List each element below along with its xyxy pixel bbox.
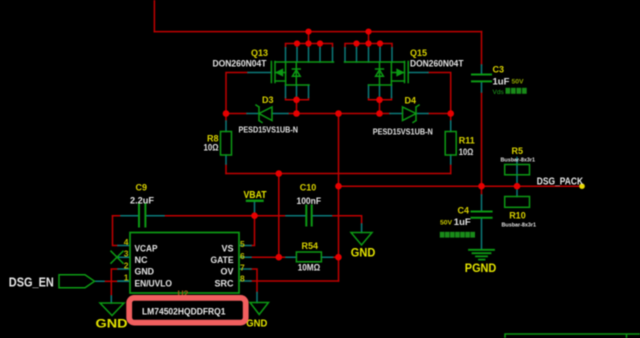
no-connect X on pin 3 bbox=[111, 251, 123, 263]
wire Q15 gate bbox=[428, 73, 451, 114]
net label PGND bbox=[465, 263, 497, 275]
svg-text:Q15: Q15 bbox=[410, 48, 427, 58]
svg-text:R11: R11 bbox=[459, 136, 475, 146]
node DSG_PACK endpoint bbox=[579, 183, 585, 189]
transistor Q15 bbox=[345, 62, 409, 86]
diode D3 bbox=[256, 105, 272, 123]
wire R8 stubs bbox=[225, 114, 227, 174]
label C10 value bbox=[297, 196, 322, 207]
label C3 voltage bbox=[512, 79, 525, 86]
label R54 value bbox=[298, 263, 321, 273]
capacitor C3 bbox=[472, 75, 491, 82]
IC pin number 8 bbox=[240, 274, 245, 284]
net label GND left bbox=[96, 319, 128, 331]
IC U2 body bbox=[130, 233, 239, 294]
svg-text:8: 8 bbox=[240, 274, 245, 284]
label R10 designator bbox=[509, 211, 526, 221]
svg-text:Busbar-8x3r1: Busbar-8x3r1 bbox=[502, 223, 537, 229]
label R5 designator bbox=[512, 146, 524, 156]
node Q13 gate / R8 / D3 bbox=[223, 110, 230, 117]
wire VBAT rail bbox=[113, 216, 362, 224]
net label GND mid bbox=[351, 248, 376, 260]
label C9 value bbox=[130, 196, 154, 207]
net label VBAT bbox=[244, 190, 267, 201]
pin right GND stub bbox=[256, 293, 258, 303]
pin R11 pins bbox=[450, 121, 452, 164]
label D3 designator bbox=[262, 95, 274, 105]
wire Q13 drain drop bbox=[308, 32, 310, 44]
label C9 designator bbox=[136, 183, 148, 193]
label D3 value bbox=[239, 126, 299, 135]
pin C10 pins bbox=[286, 215, 332, 217]
label C4 designator bbox=[458, 206, 470, 216]
highlight box around part number bbox=[129, 298, 246, 323]
pin C4 pins bbox=[481, 195, 483, 249]
wire gate feed vertical bbox=[278, 174, 280, 258]
pin Q13 drain pins bbox=[286, 48, 333, 62]
pin Q13 gate pin bbox=[248, 72, 271, 74]
svg-text:VCAP: VCAP bbox=[135, 243, 158, 253]
svg-text:R10: R10 bbox=[509, 211, 526, 221]
resistor R8 bbox=[221, 132, 232, 156]
svg-text:7: 7 bbox=[240, 263, 245, 273]
svg-text:C9: C9 bbox=[136, 183, 148, 193]
wire Q15 source jumper bbox=[369, 98, 392, 114]
node Q15 gate / R11 / D4 bbox=[447, 110, 454, 117]
svg-text:100nF: 100nF bbox=[297, 196, 322, 207]
wire IC GND branch bbox=[111, 269, 118, 296]
wire Q15 drain drop bbox=[368, 32, 370, 44]
svg-text:10MΩ: 10MΩ bbox=[298, 263, 321, 273]
label R8 designator bbox=[207, 134, 219, 144]
svg-text:3: 3 bbox=[124, 249, 129, 259]
label C3 value bbox=[493, 77, 510, 88]
svg-text:PESD15VS1UB-N: PESD15VS1UB-N bbox=[239, 126, 299, 135]
IC pin name GND bbox=[135, 267, 155, 277]
node source rail Q15 tap bbox=[376, 110, 383, 117]
pin VBAT stub bbox=[254, 203, 256, 213]
wire top vertical feed bbox=[153, 0, 155, 32]
label Q13 designator bbox=[251, 48, 268, 58]
label LM74502HQDDFRQ1 bbox=[142, 307, 226, 317]
svg-text:Busbar-8x3r1: Busbar-8x3r1 bbox=[501, 158, 536, 164]
svg-text:50V: 50V bbox=[512, 79, 525, 86]
partial component box bottom right bbox=[505, 334, 640, 338]
pin Q15 gate pin bbox=[408, 72, 428, 74]
wire VBAT to VS pin bbox=[251, 212, 255, 246]
svg-text:PGND: PGND bbox=[465, 263, 497, 275]
svg-text:GND: GND bbox=[351, 248, 376, 260]
node VBAT / VS bbox=[251, 212, 258, 219]
wire Q13 gate bbox=[226, 73, 248, 114]
capacitor C10 bbox=[306, 206, 311, 226]
svg-text:D4: D4 bbox=[405, 96, 417, 106]
resistor R5 bbox=[505, 165, 530, 175]
svg-text:1uF: 1uF bbox=[493, 77, 510, 88]
net label DSG_EN bbox=[9, 276, 54, 290]
node DSG line C4 tap bbox=[478, 183, 485, 190]
pin IC left pins bbox=[118, 246, 130, 282]
label R11 designator bbox=[459, 136, 475, 146]
wire Q13 drain jumper bbox=[286, 44, 333, 48]
label D4 designator bbox=[405, 96, 417, 106]
wire Q13 source jumper bbox=[286, 98, 309, 114]
label R8 value bbox=[204, 143, 219, 153]
label C10 designator bbox=[300, 183, 317, 193]
IC pin name SRC bbox=[215, 279, 234, 289]
node gate rail to GATE pin bbox=[276, 170, 283, 177]
pin C9 pins bbox=[121, 215, 164, 217]
label Q13 value bbox=[213, 59, 268, 69]
svg-text:NC: NC bbox=[135, 255, 148, 265]
node source rail D3 side bbox=[293, 110, 300, 117]
power VBAT bar bbox=[247, 200, 263, 202]
pin Q15 drain pins bbox=[345, 48, 392, 62]
IC pin name VS bbox=[221, 243, 233, 253]
svg-text:5: 5 bbox=[240, 239, 245, 249]
IC pin number 6 bbox=[240, 251, 245, 261]
svg-text:50V: 50V bbox=[440, 220, 453, 227]
wire C9 to VCAP bbox=[113, 216, 119, 246]
junction Q15 drain bus bbox=[353, 40, 383, 46]
node DSG line R5/R10 tap bbox=[514, 183, 521, 190]
pin mid GND stub bbox=[361, 224, 363, 233]
IC pin name NC bbox=[135, 255, 148, 265]
IC pin number 5 bbox=[240, 239, 245, 249]
wire DSG_EN segment bbox=[104, 280, 118, 282]
label C3 designator bbox=[493, 65, 505, 75]
pin D4 pins bbox=[390, 113, 428, 115]
junction Q13 source bus bbox=[293, 97, 300, 104]
svg-text:DON260N04T: DON260N04T bbox=[213, 59, 268, 69]
wire DSG_PACK line bbox=[339, 185, 583, 187]
ground left GND bbox=[100, 303, 124, 316]
label C4 voltage bbox=[440, 220, 453, 227]
resistor R11 bbox=[445, 132, 456, 156]
transistor Q13 bbox=[271, 62, 333, 86]
IC pin number 3 bbox=[124, 249, 129, 259]
pin R5 pins bbox=[516, 158, 518, 187]
label R54 designator bbox=[302, 241, 319, 251]
ground right GND bbox=[250, 303, 269, 315]
svg-text:R5: R5 bbox=[512, 146, 524, 156]
IC pin name GATE bbox=[211, 255, 234, 265]
capacitor C4 bbox=[472, 212, 492, 218]
svg-text:10Ω: 10Ω bbox=[204, 143, 219, 153]
pin Q15 source pins bbox=[369, 85, 392, 98]
label D4 value bbox=[373, 128, 433, 137]
wire top horizontal rail bbox=[154, 31, 481, 33]
node DSG line source tap bbox=[335, 183, 342, 190]
svg-text:LM74502HQDDFRQ1: LM74502HQDDFRQ1 bbox=[142, 307, 226, 317]
svg-text:OV: OV bbox=[220, 267, 233, 277]
junction top rail Q13 tap bbox=[305, 29, 311, 35]
pin R10 pin bbox=[516, 186, 518, 196]
wire R11 stubs bbox=[450, 114, 452, 174]
svg-text:GATE: GATE bbox=[211, 255, 234, 265]
port DSG_EN bbox=[59, 275, 95, 288]
resistor R54 bbox=[296, 252, 321, 262]
svg-text:C10: C10 bbox=[300, 183, 317, 193]
wire Q15 drain jumper bbox=[345, 44, 392, 48]
wire GATE pin row bbox=[251, 256, 338, 258]
net label GND right bbox=[246, 318, 267, 330]
capacitor C9 bbox=[139, 204, 145, 227]
pin Q13 source pins bbox=[286, 85, 309, 98]
ground PGND earth bbox=[469, 250, 494, 260]
svg-text:EN/UVLO: EN/UVLO bbox=[135, 279, 173, 289]
svg-text:6: 6 bbox=[240, 251, 245, 261]
IC pin name OV bbox=[220, 267, 233, 277]
net label DSG_PACK bbox=[537, 177, 583, 188]
svg-text:PESD15VS1UB-N: PESD15VS1UB-N bbox=[373, 128, 433, 137]
svg-text:GND: GND bbox=[96, 319, 128, 331]
svg-text:4: 4 bbox=[124, 237, 129, 247]
svg-text:DSG_PACK: DSG_PACK bbox=[537, 177, 583, 188]
wire SRC row bbox=[250, 280, 339, 282]
junction Q13 drain bus bbox=[294, 40, 323, 46]
label C4 value bbox=[454, 217, 471, 228]
svg-text:D3: D3 bbox=[262, 95, 274, 105]
wire C3 top drop bbox=[481, 32, 483, 65]
pin R54 pins bbox=[286, 256, 333, 258]
junction top rail Q15 tap bbox=[365, 29, 371, 35]
svg-text:1uF: 1uF bbox=[454, 217, 471, 228]
svg-text:R54: R54 bbox=[302, 241, 319, 251]
IC pin number 2 bbox=[124, 261, 129, 271]
label R11 value bbox=[459, 147, 474, 157]
label R10 value bbox=[502, 223, 537, 229]
wire gate rail bbox=[226, 173, 451, 175]
node GATE pin row right / R54 bbox=[335, 254, 342, 261]
svg-text:DON260N04T: DON260N04T bbox=[410, 59, 464, 69]
pin DSG_EN wire bbox=[95, 280, 131, 282]
pin C3 pins bbox=[481, 65, 483, 92]
label Q15 value bbox=[410, 59, 464, 69]
pin R8 pins bbox=[225, 121, 227, 164]
wire source vertical bbox=[338, 114, 340, 282]
svg-text:VBAT: VBAT bbox=[244, 190, 267, 201]
label C4 comment bbox=[440, 232, 475, 238]
wire mid source rail bbox=[226, 113, 451, 115]
svg-text:Vds: Vds bbox=[493, 89, 505, 96]
IC pin number 7 bbox=[240, 263, 245, 273]
svg-text:DSG_EN: DSG_EN bbox=[9, 276, 54, 290]
node source rail center tap bbox=[335, 110, 342, 117]
wire C3 to DSG line bbox=[481, 92, 483, 195]
svg-text:2: 2 bbox=[124, 261, 129, 271]
pin IC right pins bbox=[239, 246, 251, 282]
svg-text:VS: VS bbox=[221, 243, 233, 253]
wire OV to ground bbox=[250, 269, 258, 293]
svg-text:C4: C4 bbox=[458, 206, 470, 216]
svg-text:1: 1 bbox=[124, 273, 129, 283]
svg-text:2.2uF: 2.2uF bbox=[130, 196, 154, 207]
svg-text:C3: C3 bbox=[493, 65, 505, 75]
ground mid GND bbox=[351, 233, 372, 246]
pin left GND stub bbox=[110, 296, 112, 303]
label R5 value bbox=[501, 158, 536, 164]
label Q15 designator bbox=[410, 48, 427, 58]
IC pin number 4 bbox=[124, 237, 129, 247]
svg-text:SRC: SRC bbox=[215, 279, 234, 289]
IC pin number 1 bbox=[124, 273, 129, 283]
junction Q15 source bus bbox=[376, 97, 383, 104]
IC pin name VCAP bbox=[135, 243, 158, 253]
pin D3 pins bbox=[247, 113, 288, 115]
label C3 comment bbox=[493, 88, 527, 96]
svg-text:Q13: Q13 bbox=[251, 48, 268, 58]
resistor R10 bbox=[505, 197, 530, 208]
label U2 designator bbox=[178, 289, 189, 299]
svg-text:10Ω: 10Ω bbox=[459, 147, 474, 157]
diode D4 bbox=[403, 105, 420, 123]
svg-text:GND: GND bbox=[246, 318, 267, 330]
IC pin name EN/UVLO bbox=[135, 279, 173, 289]
node GATE pin row left bbox=[276, 254, 283, 261]
svg-text:GND: GND bbox=[135, 267, 155, 277]
